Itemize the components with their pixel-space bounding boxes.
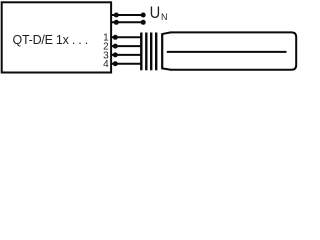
terminal dot N left: [114, 20, 119, 25]
lamp base bar 4: [155, 33, 157, 71]
wire L (mains): [111, 14, 145, 16]
terminal dot N right: [141, 20, 146, 25]
junction dot pin 4: [113, 61, 118, 66]
svg-text:4: 4: [103, 59, 109, 70]
junction dot pin 1: [113, 35, 118, 40]
svg-text:N: N: [161, 12, 168, 22]
junction dot pin 3: [113, 52, 118, 57]
lamp base bar 3: [150, 33, 152, 71]
svg-text:U: U: [150, 3, 161, 22]
lamp cap top slant: [161, 32, 171, 34]
wire pin 1: [111, 36, 142, 38]
lamp tube outline: [170, 32, 296, 69]
terminal dot L right: [141, 13, 146, 18]
wire pin 4: [111, 63, 142, 65]
wire N (mains): [111, 21, 145, 23]
ballast box QT-D/E: [2, 2, 111, 72]
terminal dot L left: [114, 13, 119, 18]
tube fold line: [167, 51, 287, 53]
lamp cap edge: [161, 34, 163, 68]
lamp cap bottom slant: [161, 68, 171, 70]
wire pin 3: [111, 54, 142, 56]
wire pin 2: [111, 45, 142, 47]
junction dot pin 2: [113, 44, 118, 49]
svg-text:QT-D/E 1x . . .: QT-D/E 1x . . .: [13, 33, 88, 47]
lamp base bar 1: [140, 33, 142, 71]
lamp base bar 2: [145, 33, 147, 71]
